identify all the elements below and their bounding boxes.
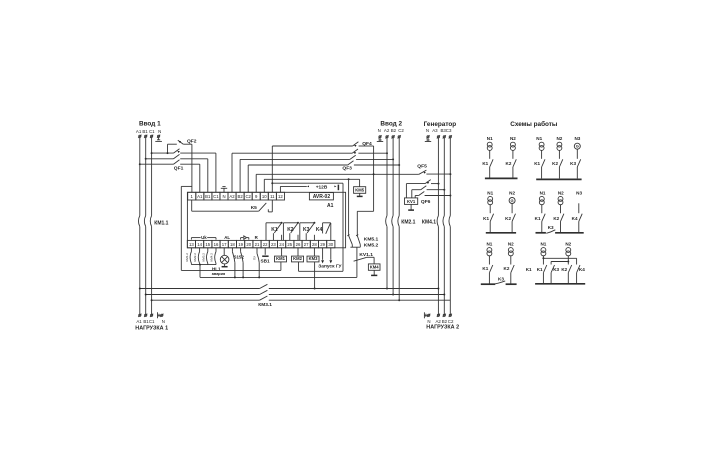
- pin 28 (AVR bottom terminal): [310, 240, 318, 247]
- svg-text:КМ4.2: КМ4.2: [210, 253, 214, 262]
- pin 21 (AVR bottom terminal): [253, 240, 261, 247]
- scheme 4 buses: [536, 232, 584, 234]
- input 1 phase labels A1 B1 C1 N: [136, 129, 161, 134]
- svg-text:K1: K1: [535, 216, 541, 221]
- wire control rail A: [181, 269, 281, 271]
- pin 22 (AVR bottom terminal): [261, 240, 269, 247]
- svg-text:НАГРУЗКА 1: НАГРУЗКА 1: [135, 325, 168, 331]
- svg-text:A1: A1: [327, 203, 334, 209]
- load 1 terminals: [138, 314, 163, 317]
- controller A1 block outline: [187, 192, 345, 248]
- svg-text:16: 16: [214, 242, 219, 247]
- svg-text:26: 26: [296, 242, 301, 247]
- svg-text:C1: C1: [149, 319, 155, 324]
- svg-text:QF6: QF6: [421, 199, 431, 205]
- scheme 6 stray label K1: [526, 267, 532, 272]
- svg-text:C2: C2: [245, 194, 251, 199]
- svg-text:Ввод 2: Ввод 2: [380, 120, 402, 127]
- svg-text:ПУ: ПУ: [252, 256, 256, 260]
- device label AVR-02: [309, 193, 333, 200]
- svg-text:KV1: KV1: [407, 199, 416, 204]
- wire +12V supply: [280, 185, 338, 193]
- circuit breaker QF1 pole 1 (C1): [151, 149, 216, 193]
- circuit breaker QF3 pole 2 (B2): [240, 155, 394, 192]
- label KM4.1: [422, 219, 436, 225]
- svg-text:KM3: KM3: [309, 256, 319, 261]
- scheme 6 contact K1: [543, 265, 546, 284]
- scheme 6 contact K2: [568, 265, 571, 284]
- wire phase B3 vertical: [443, 138, 445, 315]
- pin N (AVR top terminal): [220, 192, 228, 200]
- label QF5: [417, 164, 427, 170]
- scheme 6 contact K4: [577, 265, 580, 284]
- relay contact K5: [192, 200, 273, 212]
- pin 12 (AVR top terminal): [276, 192, 284, 200]
- contactor coil KM4: [368, 264, 380, 276]
- pin 29 (AVR bottom terminal): [319, 240, 327, 247]
- label SB1: [261, 258, 271, 263]
- svg-text:K3: K3: [498, 277, 504, 282]
- pushbutton SB1: [262, 248, 268, 256]
- pin 20 (AVR bottom terminal): [245, 240, 253, 247]
- svg-text:НАГРУЗКА 2: НАГРУЗКА 2: [426, 324, 459, 330]
- svg-text:N2: N2: [508, 242, 514, 247]
- scheme 3 source N2 generator: [509, 190, 515, 232]
- contactor contacts KM4.1: [437, 216, 450, 227]
- svg-text:S2: S2: [239, 255, 245, 260]
- scheme 6 contact K3: [551, 265, 554, 284]
- annotation AL: [224, 235, 230, 240]
- scheme 6 source N1: [540, 242, 546, 265]
- svg-text:K3: K3: [570, 161, 576, 166]
- label A1: [327, 203, 334, 209]
- wire terminal 11 to KM2 return: [272, 183, 343, 271]
- svg-text:Схемы работы: Схемы работы: [510, 120, 558, 128]
- svg-text:Uk: Uk: [201, 235, 207, 240]
- svg-text:N: N: [162, 319, 165, 324]
- circuit breaker QF6 pole 2: [412, 186, 446, 198]
- svg-text:N3: N3: [576, 190, 582, 195]
- bus phase C with tie: [151, 296, 451, 301]
- scheme 2 labels K1 K2 K3: [534, 161, 576, 166]
- svg-text:K2: K2: [553, 216, 559, 221]
- svg-text:27: 27: [304, 242, 309, 247]
- label НАГРУЗКА 2: [426, 324, 459, 330]
- load 1 labels: [136, 319, 165, 324]
- scheme 1 source N2: [510, 136, 516, 178]
- svg-text:13: 13: [189, 242, 194, 247]
- scheme 3 source N1: [487, 190, 493, 232]
- svg-text:25: 25: [287, 242, 292, 247]
- svg-text:19: 19: [238, 242, 243, 247]
- pin A2 (AVR top terminal): [228, 192, 236, 200]
- switch S2: [241, 248, 245, 279]
- label HL1: [212, 267, 225, 277]
- svg-text:N1: N1: [540, 190, 546, 195]
- svg-text:N2: N2: [509, 190, 515, 195]
- svg-text:QF1: QF1: [174, 166, 184, 172]
- wire aux contacts common: [191, 263, 216, 277]
- bus phase A with tie: [139, 284, 440, 289]
- circuit breaker QF6 pole 3: [415, 192, 451, 198]
- circuit breaker QF1 pole 3 (A1): [139, 160, 200, 193]
- pin B2 (AVR top terminal): [236, 192, 244, 200]
- scheme 4 labels K1 K2 K4: [535, 216, 578, 221]
- svg-text:K1: K1: [537, 267, 543, 272]
- pin 26 (AVR bottom terminal): [294, 240, 302, 247]
- svg-text:28: 28: [312, 242, 317, 247]
- pin 1 (AVR top terminal): [188, 192, 196, 200]
- wire control rail B: [200, 276, 357, 278]
- contactor coil KM1: [275, 248, 287, 271]
- svg-text:12: 12: [278, 194, 283, 199]
- svg-text:C1: C1: [213, 194, 219, 199]
- circuit breaker QF3 pole 3 (C2): [248, 161, 400, 193]
- scheme 3 bus: [486, 232, 516, 234]
- svg-text:N1: N1: [486, 242, 492, 247]
- relay contact K1: [266, 222, 283, 241]
- label НАГРУЗКА 1: [135, 325, 168, 331]
- svg-text:QF5: QF5: [417, 164, 427, 170]
- svg-text:QF3: QF3: [342, 166, 352, 172]
- svg-text:23: 23: [271, 242, 276, 247]
- contactor contacts KM2.1: [386, 216, 400, 227]
- svg-text:A1: A1: [136, 129, 142, 134]
- svg-text:KM1: KM1: [276, 256, 286, 261]
- svg-text:K2: K2: [552, 161, 558, 166]
- svg-text:C2: C2: [398, 128, 404, 133]
- auxiliary contact КМ4.2 (terminal 16): [210, 248, 216, 264]
- annotation Uk bracket: [191, 235, 216, 240]
- svg-text:B1: B1: [142, 129, 148, 134]
- load 2 labels: [427, 319, 454, 324]
- svg-text:K2: K2: [561, 267, 567, 272]
- label КМ3.1: [258, 302, 272, 308]
- svg-text:K1: K1: [483, 216, 489, 221]
- svg-text:N1: N1: [487, 136, 493, 141]
- circuit breaker QF5: [419, 170, 452, 175]
- svg-text:A1: A1: [136, 319, 142, 324]
- relay coil KM5: [354, 187, 366, 197]
- svg-text:КМ1.1: КМ1.1: [154, 220, 168, 226]
- scheme 4 source N3 wire: [576, 190, 582, 232]
- scheme 1 labels K1 K2: [482, 161, 512, 166]
- svg-text:N2: N2: [558, 190, 564, 195]
- scheme 6 labels: [537, 267, 585, 272]
- svg-text:N: N: [222, 194, 225, 199]
- neutral symbol at AVR terminal N: [221, 187, 227, 193]
- load 1 neutral symbol: [158, 312, 161, 318]
- contact KM5.1: [347, 235, 352, 245]
- load 2 terminals: [427, 314, 452, 317]
- svg-text:N: N: [158, 129, 161, 134]
- label K3: [303, 227, 310, 233]
- wire phase A2 vertical: [386, 138, 388, 289]
- wire phase C1 vertical: [151, 138, 153, 315]
- svg-text:29: 29: [320, 242, 325, 247]
- svg-text:+12В: +12В: [316, 184, 328, 190]
- scheme 4 source N2: [558, 190, 564, 232]
- scheme 3 labels K1 K2: [483, 216, 511, 221]
- wire phase C2 vertical: [398, 138, 400, 301]
- wire terminal 10 to KM5 coil: [264, 178, 359, 192]
- signal arrows Запуск ГУ: [321, 248, 332, 264]
- labels S1 S2: [234, 255, 245, 260]
- svg-text:K4: K4: [579, 267, 585, 272]
- scheme 2 source N3 generator: [574, 136, 580, 178]
- svg-text:15: 15: [205, 242, 210, 247]
- label KM2.1: [401, 219, 415, 225]
- label КМ1.1: [154, 220, 168, 226]
- pin 27 (AVR bottom terminal): [302, 240, 310, 247]
- svg-text:K2: K2: [504, 266, 510, 271]
- svg-text:A2: A2: [229, 194, 235, 199]
- svg-text:K1: K1: [526, 267, 532, 272]
- svg-text:KM4: KM4: [370, 264, 380, 269]
- svg-text:C1: C1: [149, 129, 155, 134]
- svg-text:N2: N2: [510, 136, 516, 141]
- svg-text:K2: K2: [287, 227, 294, 233]
- label Запуск ГУ: [318, 263, 342, 269]
- svg-text:Ввод 1: Ввод 1: [139, 120, 161, 127]
- wire terminal 11 riser: [271, 146, 273, 192]
- input 2 terminals: [378, 135, 400, 138]
- svg-text:AVR-02: AVR-02: [313, 194, 331, 200]
- scheme 2 source N2: [556, 136, 562, 178]
- svg-text:B2: B2: [442, 319, 448, 324]
- label K5: [251, 205, 257, 211]
- label QF4: [362, 141, 372, 147]
- svg-text:B2: B2: [237, 194, 243, 199]
- svg-text:K2: K2: [506, 161, 512, 166]
- lamp HL1: [220, 248, 229, 267]
- labels KM5.1 KM5.2: [364, 236, 379, 248]
- scheme 4 tie contact K3: [546, 225, 555, 233]
- pin 17 (AVR bottom terminal): [220, 240, 228, 247]
- scheme 5 labels K1 K2: [482, 266, 509, 271]
- svg-text:N3: N3: [574, 136, 580, 141]
- annotation run-indicator bracket: [241, 236, 249, 240]
- input 2 phase labels: [378, 128, 405, 133]
- label K4: [316, 227, 323, 233]
- svg-text:K1: K1: [482, 161, 488, 166]
- switch S1: [232, 248, 236, 279]
- schemes panel title: [510, 120, 558, 128]
- scheme 1 bus: [485, 177, 518, 179]
- circuit breaker QF2: [167, 140, 192, 192]
- pin 25 (AVR bottom terminal): [286, 240, 294, 247]
- wire terminal 9 to QF5 line: [256, 174, 419, 192]
- circuit breaker QF1 pole 2 (B1): [145, 154, 208, 192]
- svg-text:C3: C3: [446, 128, 452, 133]
- pin 30 (AVR bottom terminal): [327, 240, 335, 247]
- pin 19 (AVR bottom terminal): [237, 240, 245, 247]
- wire phase B1 vertical: [145, 138, 147, 315]
- label QF1: [174, 166, 184, 172]
- label QF6: [421, 199, 431, 205]
- svg-text:N2: N2: [565, 242, 571, 247]
- svg-text:авария: авария: [212, 272, 225, 276]
- contactor coil KM3: [307, 248, 319, 290]
- svg-text:K5: K5: [251, 205, 257, 211]
- input 2 neutral bus symbol: [377, 138, 383, 141]
- svg-text:HL1: HL1: [212, 267, 221, 272]
- svg-text:K3: K3: [303, 227, 310, 233]
- voltage relay KV1: [405, 198, 418, 210]
- scheme 1 source N1: [487, 136, 493, 178]
- scheme 5 source N2: [508, 242, 514, 284]
- svg-text:K2: K2: [505, 216, 511, 221]
- svg-text:QF2: QF2: [187, 138, 197, 144]
- wire phase C3 vertical: [449, 138, 451, 315]
- svg-text:K4: K4: [316, 227, 323, 233]
- pin 16 (AVR bottom terminal): [212, 240, 220, 247]
- load 2 neutral symbol: [424, 312, 427, 318]
- scheme 5 buses: [481, 283, 517, 285]
- pin 10 (AVR top terminal): [260, 192, 268, 200]
- svg-text:KM5: KM5: [355, 187, 365, 192]
- svg-text:КМ2.1: КМ2.1: [401, 219, 415, 225]
- pin 13 (AVR bottom terminal): [187, 240, 195, 247]
- input 1 terminals: [138, 135, 160, 138]
- svg-text:G: G: [576, 144, 579, 149]
- label +12В: [316, 184, 328, 190]
- svg-text:KV1.1: KV1.1: [359, 252, 373, 258]
- svg-text:A1: A1: [197, 194, 203, 199]
- annotation R: [255, 235, 259, 240]
- relay contact K4: [323, 223, 331, 241]
- label QF2: [187, 138, 197, 144]
- contactor contacts KM1.1: [138, 216, 151, 227]
- svg-text:11: 11: [270, 194, 275, 199]
- auxiliary contact КМ1.2 (terminal 13): [185, 248, 191, 264]
- svg-text:N1: N1: [540, 242, 546, 247]
- generator terminals: [426, 135, 452, 138]
- svg-text:N1: N1: [487, 190, 493, 195]
- label K1: [271, 227, 278, 233]
- pin 23 (AVR bottom terminal): [269, 240, 277, 247]
- svg-text:Запуск ГУ: Запуск ГУ: [318, 263, 342, 269]
- wire phase B2 vertical: [392, 138, 394, 295]
- svg-text:KM5.2: KM5.2: [364, 243, 379, 249]
- svg-text:K1: K1: [271, 227, 278, 233]
- bus phase B with tie: [145, 290, 446, 295]
- relay contact K2: [283, 222, 299, 241]
- pin C2 (AVR top terminal): [244, 192, 252, 200]
- scheme 6 crossover wires: [543, 258, 576, 264]
- scheme 2 source N1: [536, 136, 545, 178]
- svg-text:A2: A2: [436, 319, 442, 324]
- svg-text:A2: A2: [384, 128, 390, 133]
- svg-text:18: 18: [230, 242, 235, 247]
- wire QF2 branch to control rail: [181, 186, 192, 270]
- remote contact at terminal 21: [252, 248, 260, 279]
- svg-text:24: 24: [279, 242, 284, 247]
- svg-text:22: 22: [263, 242, 268, 247]
- svg-text:10: 10: [262, 194, 267, 199]
- pin B1 (AVR top terminal): [204, 192, 212, 200]
- svg-text:QF4: QF4: [362, 141, 372, 147]
- wire KM5.1 branch: [348, 179, 350, 235]
- generator neutral bus symbol: [425, 138, 431, 141]
- contactor coil KM2: [292, 248, 304, 271]
- pin 11 (AVR top terminal): [268, 192, 276, 200]
- wire phase A3 vertical: [437, 138, 439, 315]
- svg-text:KM5.1: KM5.1: [364, 236, 379, 242]
- relay contact KV1.1: [354, 257, 375, 264]
- svg-text:30: 30: [328, 242, 333, 247]
- pin 15 (AVR bottom terminal): [204, 240, 212, 247]
- svg-text:B1: B1: [205, 194, 211, 199]
- svg-text:K1: K1: [534, 161, 540, 166]
- svg-text:G: G: [511, 198, 514, 203]
- svg-text:14: 14: [197, 242, 202, 247]
- contact KM5.2: [356, 235, 360, 245]
- svg-text:SB1: SB1: [261, 258, 271, 263]
- svg-text:КМ3.1: КМ3.1: [258, 302, 272, 308]
- pin C1 (AVR top terminal): [212, 192, 220, 200]
- pin 24 (AVR bottom terminal): [278, 240, 286, 247]
- label K2: [287, 227, 294, 233]
- pin 9 (AVR top terminal): [252, 192, 260, 200]
- svg-text:20: 20: [246, 242, 251, 247]
- svg-text:A3: A3: [432, 128, 438, 133]
- auxiliary contact КМ3.2 (terminal 15): [201, 248, 207, 264]
- circuit breaker QF6 pole 1: [406, 180, 439, 198]
- net input 1 title: [139, 120, 161, 127]
- svg-text:Генератор: Генератор: [424, 121, 457, 128]
- wire phase A1 vertical: [139, 138, 141, 315]
- generator title: [424, 121, 457, 128]
- svg-text:K1: K1: [482, 266, 488, 271]
- svg-text:AL: AL: [224, 235, 230, 240]
- label KV1.1: [359, 252, 373, 258]
- pin A1 (AVR top terminal): [196, 192, 204, 200]
- scheme 5 source N1: [486, 242, 492, 284]
- scheme 4 source N1: [539, 190, 546, 232]
- net input 2 title: [380, 120, 402, 127]
- scheme 6 source N2: [565, 242, 571, 265]
- svg-text:C2: C2: [448, 319, 454, 324]
- circuit breaker QF4: [272, 142, 374, 236]
- svg-text:21: 21: [255, 242, 260, 247]
- svg-text:N2: N2: [556, 136, 562, 141]
- svg-text:B2: B2: [391, 128, 397, 133]
- svg-text:КМ1.2: КМ1.2: [185, 253, 189, 262]
- input 1 neutral bus symbol: [155, 138, 162, 142]
- scheme 2 bus: [536, 178, 581, 180]
- pin 18 (AVR bottom terminal): [228, 240, 236, 247]
- svg-text:КМ4.1: КМ4.1: [422, 219, 436, 225]
- label QF3: [342, 166, 352, 172]
- scheme 5 tie contact K3: [492, 277, 506, 285]
- svg-text:17: 17: [222, 242, 227, 247]
- svg-text:N1: N1: [536, 136, 542, 141]
- generator phase labels: [426, 128, 452, 133]
- svg-text:КМ2.2: КМ2.2: [193, 253, 197, 262]
- svg-text:КМ3.2: КМ3.2: [201, 253, 205, 262]
- pin 14 (AVR bottom terminal): [196, 240, 204, 247]
- svg-text:K4: K4: [572, 216, 578, 221]
- circuit breaker QF3 pole 1 (A2): [232, 149, 388, 192]
- svg-text:K3: K3: [553, 267, 559, 272]
- auxiliary contact КМ2.2 (terminal 14): [193, 248, 199, 264]
- scheme 6 bus: [535, 283, 585, 285]
- svg-text:N: N: [427, 319, 430, 324]
- svg-text:K3: K3: [548, 225, 554, 230]
- svg-text:N: N: [378, 128, 381, 133]
- relay contact K3: [300, 222, 316, 241]
